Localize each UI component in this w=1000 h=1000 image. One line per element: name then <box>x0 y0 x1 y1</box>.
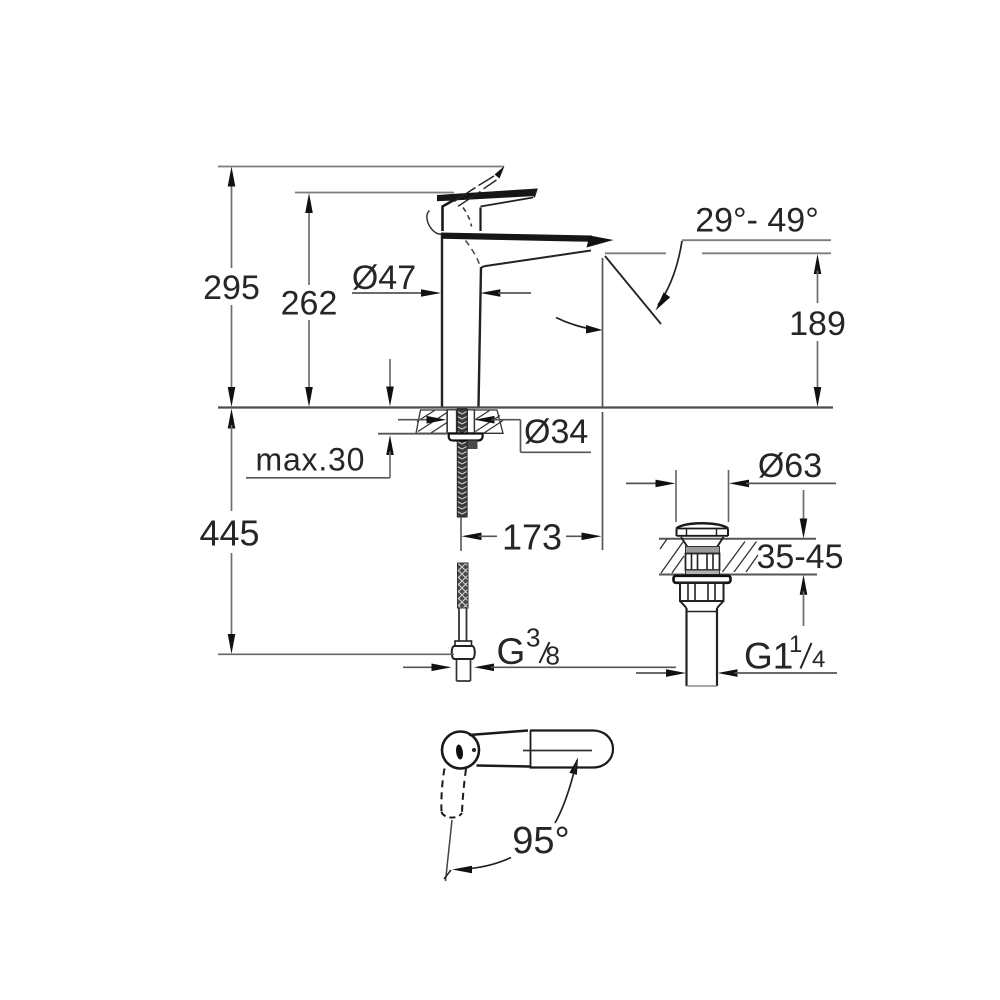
reference line top of lever <box>218 166 504 168</box>
drain neck <box>681 537 724 547</box>
mounting surface line <box>218 406 833 408</box>
svg-text:Ø34: Ø34 <box>524 413 588 451</box>
washer <box>449 434 483 441</box>
drain extension lines <box>676 470 729 522</box>
svg-text:295: 295 <box>203 269 260 307</box>
hidden cartridge dashes <box>463 208 472 227</box>
svg-text:G: G <box>497 631 526 672</box>
faucet body right edge <box>479 267 482 407</box>
hidden waterway dashes <box>466 241 481 267</box>
svg-text:max.30: max.30 <box>256 442 366 478</box>
lever raised position strokes <box>454 166 505 206</box>
svg-text:95°: 95° <box>512 820 569 862</box>
threaded stud <box>457 409 467 517</box>
hose tube <box>459 608 467 643</box>
dimension D34 <box>398 413 591 452</box>
dimension G 3/8 <box>403 623 676 673</box>
faucet body left edge <box>441 233 443 407</box>
angle 29-49 label <box>695 202 819 240</box>
counter underside line <box>378 433 448 435</box>
handle detail knob <box>442 732 479 769</box>
pull rod <box>460 517 462 551</box>
spout tip vertical line <box>602 258 604 407</box>
drain counter band lines <box>659 539 817 575</box>
svg-text:35-45: 35-45 <box>757 538 844 576</box>
reference line 445 bottom <box>218 653 454 655</box>
drain tailpipe <box>687 608 718 686</box>
svg-text:189: 189 <box>789 305 846 343</box>
dimension D63 <box>626 447 836 487</box>
svg-text:Ø47: Ø47 <box>352 259 416 297</box>
dimension 189 vertical <box>789 254 846 407</box>
svg-text:G1: G1 <box>744 636 793 677</box>
mounting nut <box>468 441 478 450</box>
handle base <box>443 199 481 231</box>
spout direction diagonal <box>605 256 661 324</box>
faucet top band <box>441 233 592 242</box>
angle 95 arc <box>444 758 578 880</box>
connector nut <box>452 646 475 659</box>
handle loop curve <box>427 211 442 235</box>
small swivel arc arrow <box>556 318 603 334</box>
handle detail lever <box>469 731 613 768</box>
dimension 173 <box>462 412 603 558</box>
drain counter hatch <box>660 539 758 573</box>
svg-text:29°- 49°: 29°- 49° <box>695 202 819 240</box>
dimension 35-45 <box>757 490 844 626</box>
counter hatch right <box>475 410 504 433</box>
lever blade closed position <box>437 189 537 207</box>
hose connector flange <box>455 641 472 646</box>
svg-text:4: 4 <box>812 646 825 673</box>
svg-text:262: 262 <box>281 285 338 323</box>
spout underside <box>481 251 591 269</box>
dimension max.30 <box>246 359 394 478</box>
dimension G 1 1/4 <box>636 631 837 677</box>
braided hose <box>458 563 469 608</box>
shank spacer <box>447 410 474 433</box>
angle curve arrow <box>656 241 683 311</box>
spout reference line 189 top <box>605 252 831 254</box>
connector tail tube <box>457 659 471 681</box>
counter hatch left <box>416 410 447 433</box>
dimension 295 vertical <box>203 167 260 408</box>
angle 29-49 underline <box>682 239 831 241</box>
handle detail dashed position <box>441 769 466 882</box>
angle 95 label <box>512 820 569 862</box>
reference line 262 level <box>295 192 454 194</box>
svg-text:445: 445 <box>199 513 259 554</box>
drain cap <box>677 523 729 536</box>
drain body upper <box>686 547 720 575</box>
aerator tip <box>587 236 614 248</box>
svg-text:8: 8 <box>546 641 560 671</box>
dimension 262 vertical <box>281 193 338 407</box>
dimension D47 <box>352 259 531 297</box>
svg-text:Ø63: Ø63 <box>758 447 822 485</box>
svg-text:1: 1 <box>789 631 802 658</box>
svg-text:3: 3 <box>526 623 540 653</box>
drain body lower <box>680 583 724 608</box>
svg-text:173: 173 <box>502 517 562 558</box>
drain seal washer <box>674 576 731 583</box>
dimension 445 vertical <box>199 409 259 655</box>
